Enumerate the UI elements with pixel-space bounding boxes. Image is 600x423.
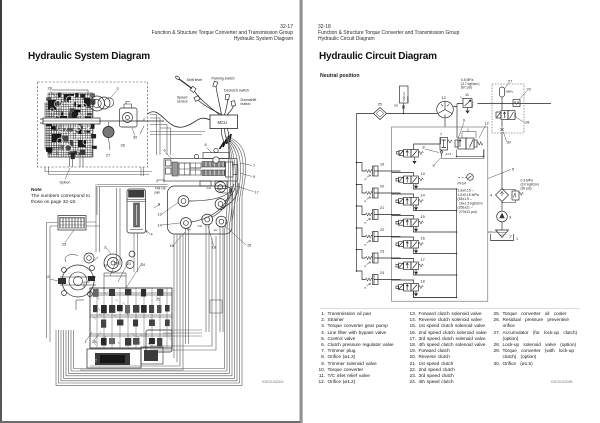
- svg-text:(30 psi): (30 psi): [521, 187, 532, 191]
- svg-text:30: 30: [507, 141, 511, 145]
- svg-text:25: 25: [62, 243, 66, 247]
- svg-text:28: 28: [121, 144, 125, 148]
- svg-text:23: 23: [127, 262, 131, 266]
- svg-text:29: 29: [527, 88, 531, 92]
- svg-text:4: 4: [151, 233, 153, 237]
- svg-text:11: 11: [465, 93, 469, 97]
- svg-text:24: 24: [380, 271, 384, 275]
- svg-text:1st: 1st: [214, 228, 218, 232]
- svg-text:6: 6: [164, 149, 166, 153]
- svg-text:Declutch switch: Declutch switch: [224, 89, 249, 93]
- svg-text:3: 3: [509, 216, 511, 220]
- svg-text:2nd: 2nd: [198, 224, 203, 228]
- svg-text:17: 17: [421, 258, 425, 262]
- svg-text:sensor: sensor: [177, 100, 189, 104]
- svg-text:21: 21: [380, 206, 384, 210]
- svg-text:4: 4: [490, 194, 492, 198]
- svg-text:Shift lever: Shift lever: [187, 78, 204, 82]
- svg-text:28: 28: [48, 87, 52, 91]
- svg-text:8: 8: [423, 146, 425, 150]
- svg-text:23: 23: [380, 250, 384, 254]
- svg-text:16: 16: [421, 237, 425, 241]
- svg-text:16: 16: [170, 244, 174, 248]
- svg-text:PF1/4: PF1/4: [458, 182, 467, 186]
- svg-text:28: 28: [525, 121, 529, 125]
- svg-text:2: 2: [95, 359, 97, 363]
- svg-text:1: 1: [516, 237, 518, 241]
- svg-text:12: 12: [485, 122, 489, 126]
- svg-text:30kPa: 30kPa: [506, 90, 514, 94]
- svg-text:18: 18: [421, 280, 425, 284]
- svg-text:27: 27: [106, 154, 110, 158]
- svg-text:13: 13: [158, 213, 162, 217]
- svg-text:2: 2: [510, 235, 512, 239]
- svg-text:15: 15: [247, 244, 251, 248]
- svg-text:30: 30: [133, 136, 137, 140]
- svg-text:270±21 psi): 270±21 psi): [459, 210, 477, 214]
- svg-text:14: 14: [421, 194, 425, 198]
- svg-text:18: 18: [104, 264, 108, 268]
- svg-text:14: 14: [158, 224, 162, 228]
- svg-text:pan: pan: [155, 191, 161, 195]
- svg-text:10: 10: [442, 96, 446, 100]
- svg-text:9: 9: [253, 175, 255, 179]
- svg-text:7: 7: [253, 164, 255, 168]
- svg-text:3/8: 3/8: [394, 104, 398, 108]
- svg-text:20: 20: [380, 185, 384, 189]
- svg-text:pan: pan: [405, 96, 409, 101]
- svg-text:5: 5: [512, 168, 514, 172]
- svg-text:3: 3: [104, 246, 106, 250]
- svg-text:2nd: 2nd: [207, 186, 212, 190]
- svg-text:Parking switch: Parking switch: [212, 77, 235, 81]
- svg-text:Option: Option: [60, 181, 71, 185]
- svg-text:13: 13: [421, 172, 425, 176]
- svg-text:21: 21: [156, 298, 160, 302]
- svg-text:MCU: MCU: [218, 120, 228, 125]
- svg-text:8: 8: [205, 143, 207, 147]
- svg-text:15: 15: [421, 215, 425, 219]
- svg-text:19: 19: [380, 163, 384, 167]
- svg-text:ø1.3: ø1.3: [446, 152, 452, 156]
- svg-text:6: 6: [463, 119, 465, 123]
- svg-text:(67 psi): (67 psi): [461, 86, 472, 90]
- svg-text:4th: 4th: [187, 228, 191, 232]
- svg-text:22: 22: [380, 228, 384, 232]
- svg-text:27: 27: [508, 80, 512, 84]
- svg-text:button: button: [241, 102, 251, 106]
- svg-text:25: 25: [378, 103, 382, 107]
- svg-text:3: 3: [117, 87, 119, 91]
- svg-text:17: 17: [255, 191, 259, 195]
- svg-text:7: 7: [440, 133, 442, 137]
